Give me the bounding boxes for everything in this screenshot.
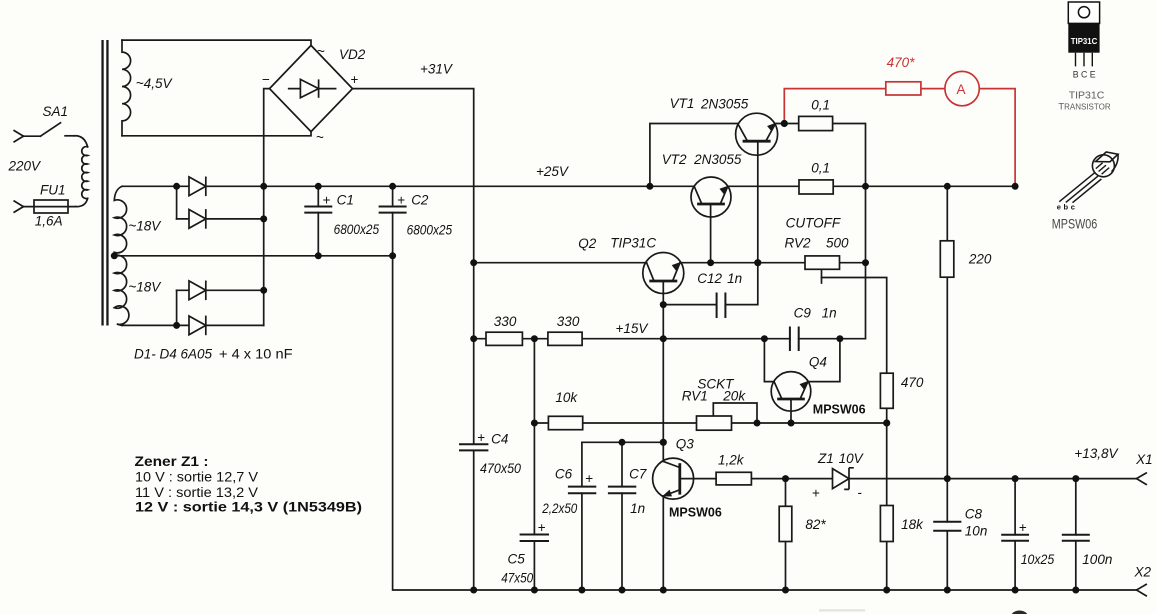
wire 18k bottom (886, 542, 888, 591)
svg-text:100n: 100n (1082, 552, 1112, 567)
svg-text:RV2: RV2 (785, 236, 812, 251)
svg-text:1,2k: 1,2k (718, 452, 745, 467)
resistor 82* (779, 506, 792, 541)
svg-text:C12: C12 (697, 271, 722, 286)
svg-text:330: 330 (557, 314, 580, 329)
wire 4,5V winding bottom to bridge (122, 132, 311, 136)
wire ground rail (center tap) (114, 255, 392, 257)
wire RV2 wiper tick (821, 269, 823, 283)
resistor 330 first (486, 332, 522, 345)
wire X2 terminal chevron (1137, 584, 1147, 595)
wire VT2 base (710, 204, 712, 263)
node +15V / Q2 base (660, 335, 667, 342)
node Q2 collector on +31V (470, 259, 477, 266)
svg-text:220: 220 (968, 252, 992, 267)
svg-text:C8: C8 (965, 507, 983, 522)
primary winding coil (82, 147, 88, 199)
wire RV2 right to output-sense vertical (840, 262, 866, 264)
svg-text:B: B (1073, 69, 1079, 79)
svg-text:~: ~ (317, 44, 325, 59)
svg-text:C7: C7 (629, 466, 647, 481)
node Q2 base / C12 (660, 301, 667, 308)
svg-text:220V: 220V (8, 159, 43, 174)
resistor 470 (880, 373, 893, 408)
svg-text:X2: X2 (1134, 565, 1152, 580)
capacitor C9 plates (790, 327, 799, 352)
potentiometer RV2 500 (805, 256, 840, 269)
TIP31C package drawing (1058, 2, 1110, 111)
MPSW06 leads (1059, 173, 1101, 203)
capacitor C4 plates (459, 444, 488, 450)
wire VT1 emitter to 0,1 (776, 123, 799, 125)
svg-text:b: b (1064, 203, 1069, 212)
node C2 top (389, 183, 396, 190)
secondary winding 18V upper (114, 186, 126, 256)
diode D4 (189, 316, 206, 335)
wire 470 to 18k (886, 408, 888, 505)
svg-text:CUTOFF: CUTOFF (786, 216, 841, 231)
node C7 bottom (619, 587, 626, 594)
svg-text:2N3055: 2N3055 (693, 152, 742, 167)
svg-text:~4,5V: ~4,5V (136, 76, 174, 91)
svg-text:A: A (957, 82, 966, 97)
resistor 470* red (886, 82, 921, 95)
transformer core (101, 40, 103, 326)
node C7 top (619, 439, 626, 446)
svg-text:470: 470 (901, 375, 924, 390)
svg-text:1n: 1n (630, 501, 645, 516)
secondary winding 18V lower (114, 255, 129, 325)
node C6 bottom (578, 587, 585, 594)
svg-text:+: + (812, 486, 820, 501)
svg-text:C1: C1 (337, 192, 354, 207)
svg-text:330: 330 (494, 314, 517, 329)
svg-text:MPSW06: MPSW06 (1052, 217, 1098, 232)
wire C6 risers (581, 442, 583, 590)
svg-text:Zener Z1 :: Zener Z1 : (135, 454, 209, 469)
svg-text:-: - (858, 485, 863, 500)
node transformer center tap (111, 252, 118, 259)
svg-text:2N3055: 2N3055 (700, 96, 749, 111)
MPSW06 package drawing (1052, 152, 1118, 232)
capacitor 10x25 plates (1001, 535, 1029, 541)
node VT1 base (754, 259, 761, 266)
wire red resistor to ammeter (921, 88, 945, 90)
svg-text:C6: C6 (555, 466, 573, 481)
svg-text:1,6A: 1,6A (35, 214, 63, 229)
node D2 cathode (260, 215, 267, 222)
svg-text:+: + (585, 471, 593, 486)
node 10k left (531, 420, 538, 427)
wire D2 row (177, 218, 264, 220)
transistor Q2 TIP31C (643, 253, 684, 294)
svg-text:+: + (323, 192, 331, 207)
diode D2 (189, 210, 206, 229)
svg-text:MPSW06: MPSW06 (669, 506, 722, 520)
wire Q4 emitter riser (808, 339, 840, 382)
node 100n bottom (1072, 587, 1079, 594)
wire 0,1 output down to C9 corner (799, 124, 866, 339)
node 0,1 output on emitter rail (862, 183, 869, 190)
resistor 0,1 (VT2) (799, 180, 833, 194)
svg-text:+25V: +25V (536, 164, 570, 179)
svg-text:+: + (477, 430, 485, 445)
node C2 bottom (389, 252, 396, 259)
resistor 10k (548, 416, 582, 429)
svg-text:TRANSISTOR: TRANSISTOR (1058, 101, 1110, 111)
svg-text:+: + (1019, 520, 1027, 535)
primary winding top hook (74, 136, 87, 147)
wire 100n cap risers (1075, 479, 1077, 590)
svg-text:+: + (538, 520, 546, 535)
wire C12 left (663, 304, 716, 306)
node VT2 base (707, 259, 714, 266)
node VT1 collector on +25V rail (646, 183, 653, 190)
wire 4,5V winding top to bridge (122, 40, 311, 45)
node VT1 emitter / red branch (781, 120, 788, 127)
bottom edge artifacts (819, 609, 865, 611)
wire Q4 collector riser (764, 339, 774, 382)
node C4 bottom on 0V rail (470, 587, 477, 594)
wire FU1 input chevron (14, 201, 23, 212)
svg-text:e: e (1057, 203, 1061, 212)
svg-text:11 V : sortie 13,2 V: 11 V : sortie 13,2 V (135, 485, 258, 500)
svg-text:E: E (1090, 69, 1096, 79)
wire Q2 base / Q3 collector vertical (662, 281, 664, 461)
svg-text:20k: 20k (722, 388, 746, 403)
svg-text:TIP31C: TIP31C (610, 236, 656, 251)
node ammeter return / output riser (1012, 183, 1019, 190)
svg-text:D1- D4 6A05: D1- D4 6A05 (134, 347, 213, 362)
node 330 junction (531, 335, 538, 342)
svg-text:C4: C4 (491, 432, 508, 447)
node Q3 collector / compensation (660, 439, 667, 446)
node 470 bottom / wiper line (883, 419, 890, 426)
wire +31V from bridge and down vertical (353, 89, 474, 590)
wire output line 1,2k to Z1 to X1 (751, 478, 1136, 480)
node 82* bottom (782, 587, 789, 594)
svg-text:10 V : sortie 12,7 V: 10 V : sortie 12,7 V (135, 470, 258, 485)
diode in bridge VD2 (300, 79, 318, 97)
wire red from VT1 emitter node up (784, 89, 886, 124)
svg-text:SA1: SA1 (43, 104, 69, 119)
wire red ammeter to +25V node (979, 89, 1015, 187)
svg-text:c: c (1071, 203, 1075, 212)
svg-text:RV1: RV1 (682, 388, 708, 403)
wire X1 terminal chevron (1137, 473, 1147, 484)
node diode pair B anode branch (173, 322, 180, 329)
wire bridge minus stub and vertical (264, 89, 270, 326)
potentiometer RV1 20k (697, 416, 732, 430)
wire VT1 collector to +25V (650, 124, 738, 187)
wire C1 risers (317, 186, 319, 256)
svg-text:Z1: Z1 (817, 451, 834, 466)
wire 10x25 cap risers (1014, 479, 1016, 590)
wire 220 top (946, 186, 948, 241)
svg-text:1n: 1n (822, 306, 837, 321)
node 18k bottom (883, 587, 890, 594)
wire C7 risers (621, 442, 623, 590)
node diode pair A anode branch (173, 183, 180, 190)
wire Q4 base (790, 399, 792, 423)
node Z1 cathode / 220 bottom (944, 475, 951, 482)
svg-text:TIP31C: TIP31C (1069, 90, 1105, 102)
svg-text:VT1: VT1 (670, 96, 695, 111)
node C5 bottom (531, 587, 538, 594)
diode D3 (189, 281, 206, 300)
capacitor C2 plates (379, 207, 407, 213)
svg-text:500: 500 (826, 236, 849, 251)
red current-meter branch (784, 71, 1015, 186)
wire diode branch vertical top pair (176, 186, 178, 219)
capacitor 100n plates (1062, 535, 1090, 541)
capacitor C7 plates (608, 487, 636, 494)
svg-text:1n: 1n (727, 271, 742, 286)
svg-text:VT2: VT2 (662, 152, 687, 167)
wire C2 risers (392, 186, 394, 256)
capacitor C6 plates (568, 487, 596, 494)
transistor Q3 MPSW06 (mirrored) (653, 458, 694, 499)
svg-text:Q4: Q4 (809, 355, 827, 370)
wire Q2 emitter to RV2 (680, 262, 805, 264)
transistor VT2 2N3055 (691, 177, 731, 217)
zener diode Z1 (833, 469, 850, 489)
svg-text:18k: 18k (901, 517, 924, 532)
node C8 bottom (944, 587, 951, 594)
svg-text:10V: 10V (839, 451, 865, 466)
bridge inner diode line (289, 88, 336, 90)
switch SA1 fixed contact dash (65, 135, 74, 137)
resistor 220 (940, 241, 954, 277)
svg-text:+31V: +31V (420, 61, 454, 76)
node 330 feed on +31V (470, 335, 477, 342)
svg-text:~: ~ (316, 130, 324, 145)
node Q4 base on RV1 line (788, 420, 795, 427)
svg-text:47x50: 47x50 (501, 571, 533, 586)
resistor 18k (880, 506, 893, 542)
capacitor C8 plates (933, 522, 961, 531)
svg-text:+: + (351, 72, 359, 87)
node 100n top (1072, 475, 1079, 482)
wire C6 C7 top line (582, 441, 663, 443)
svg-text:C9: C9 (794, 306, 812, 321)
wire 82* resistor risers (785, 479, 787, 590)
primary winding bottom hook (76, 198, 88, 206)
node 10x25 bottom (1012, 587, 1019, 594)
node bridge minus / +25V rail (260, 183, 267, 190)
svg-text:C: C (1081, 69, 1088, 79)
node C9 left / Q4 collector (761, 335, 768, 342)
fuse FU1 (34, 200, 68, 213)
node C1 top (315, 183, 322, 190)
secondary winding 4,5V (122, 40, 131, 136)
svg-text:−: − (262, 72, 270, 87)
wire Q2 collector to +31V (474, 262, 647, 264)
wire SA1 input chevron (14, 131, 23, 142)
node 82* top / 1,2k output (782, 475, 789, 482)
svg-text:X1: X1 (1135, 452, 1153, 467)
svg-text:82*: 82* (805, 517, 826, 532)
wire Q3 base to 1,2k (680, 478, 716, 480)
node 220 top (944, 183, 951, 190)
bridge rectifier VD2 diamond (270, 45, 353, 131)
svg-text:FU1: FU1 (40, 183, 66, 198)
node RV1 wiper tie (754, 420, 761, 427)
transistor VT1 2N3055 (643, 113, 811, 499)
svg-text:0,1: 0,1 (811, 161, 830, 176)
svg-text:+ 4 x 10 nF: + 4 x 10 nF (219, 347, 293, 362)
wire RV2 wiper to 470 (822, 278, 887, 374)
wire VT1 base and C12 right riser (725, 141, 757, 304)
svg-text:6800x25: 6800x25 (407, 223, 453, 238)
node C9 right / Q4 emitter (836, 335, 843, 342)
svg-text:470x50: 470x50 (480, 461, 521, 476)
resistor 330 second (548, 332, 582, 345)
wire SA1 to blade (23, 135, 40, 137)
wire through fuse FU1 (23, 206, 75, 208)
wire D3 row (177, 289, 264, 291)
transistor Q4 MPSW06 (771, 372, 811, 412)
wire +15V rail (474, 338, 790, 340)
svg-text:MPSW06: MPSW06 (813, 402, 866, 416)
wire +25V rail right (emitter output) (728, 185, 1015, 187)
resistor 0,1 (VT1) (799, 116, 833, 130)
svg-text:~18V: ~18V (128, 219, 162, 234)
svg-text:470*: 470* (887, 55, 916, 70)
svg-text:VD2: VD2 (339, 47, 366, 62)
node C1 bottom (315, 252, 322, 259)
svg-text:C5: C5 (508, 552, 526, 567)
node D3 cathode (260, 287, 267, 294)
svg-text:10x25: 10x25 (1021, 552, 1055, 567)
wire 220 bottom to C8 and bottom rail (946, 277, 948, 590)
svg-text:Q2: Q2 (578, 236, 597, 251)
svg-text:10k: 10k (555, 390, 578, 405)
svg-text:C2: C2 (411, 192, 429, 207)
wire Q3 emitter to bottom rail (662, 496, 664, 590)
diode D1 (189, 177, 206, 196)
node Q3 emitter on 0V rail (660, 587, 667, 594)
node RV2 right (862, 259, 869, 266)
svg-text:6800x25: 6800x25 (334, 222, 380, 237)
switch SA1 blade (40, 123, 60, 136)
svg-text:2,2x50: 2,2x50 (541, 501, 577, 516)
svg-text:10n: 10n (965, 523, 988, 538)
wire +25V rail left (122, 185, 694, 187)
svg-text:0,1: 0,1 (811, 97, 830, 112)
wire 330 junction drop through C5 to bottom (533, 339, 535, 590)
svg-text:12 V : sortie 14,3 V (1N5349B): 12 V : sortie 14,3 V (1N5349B) (135, 500, 362, 515)
capacitor C5 plates (520, 535, 549, 542)
wire 10k RV1 line (534, 422, 886, 424)
svg-text:+15V: +15V (616, 321, 650, 336)
svg-text:Q3: Q3 (676, 436, 695, 451)
svg-text:TIP31C: TIP31C (1071, 36, 1098, 46)
wire D4 row (18V lower winding output) (122, 324, 264, 326)
capacitor C12 plates (717, 293, 726, 319)
wire diode branch vertical bottom pair (176, 290, 178, 325)
node X1 output riser (1012, 475, 1019, 482)
capacitor C1 plates (304, 207, 1090, 542)
wire C2 bottom vertical and bottom rail to X2 (393, 256, 1137, 590)
svg-text:~18V: ~18V (128, 280, 162, 295)
ammeter A (945, 71, 979, 105)
wire RV1 wiper (713, 403, 757, 423)
resistor 1,2k (716, 472, 751, 485)
svg-text:+13,8V: +13,8V (1074, 446, 1119, 461)
svg-text:+: + (397, 192, 405, 207)
